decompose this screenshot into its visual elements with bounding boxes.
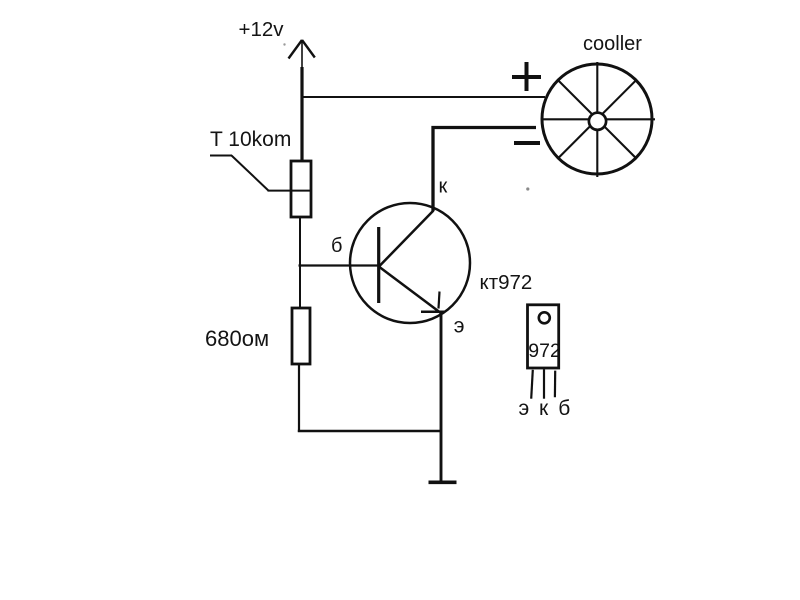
minus terminal — [514, 141, 540, 145]
transistor VT1 circle — [350, 203, 470, 323]
trimmer R1 wiper — [210, 156, 310, 191]
svg-text:кт972: кт972 — [480, 271, 533, 294]
svg-text:э: э — [454, 315, 465, 338]
wire: emitter down to ground — [440, 313, 443, 483]
wire: base wire — [299, 264, 380, 266]
package U1 hole — [539, 312, 550, 323]
speck artifact — [526, 187, 529, 190]
wire: trimmer to 680ом resistor — [299, 216, 301, 309]
svg-text:к: к — [539, 397, 549, 420]
transistor VT1 emitter arrow — [421, 292, 445, 312]
svg-text:cooller: cooller — [583, 33, 642, 55]
package U1 leg к — [543, 369, 545, 398]
svg-text:б: б — [558, 397, 570, 420]
svg-text:972: 972 — [528, 340, 561, 362]
svg-text:э: э — [519, 397, 530, 420]
package U1 leg э — [531, 370, 533, 399]
package U1 leg б — [554, 371, 556, 398]
ground — [429, 480, 457, 484]
speck artifact — [283, 43, 285, 45]
+12V supply arrow — [289, 40, 315, 68]
fan M1 outer circle — [542, 64, 652, 174]
svg-text:б: б — [331, 235, 342, 257]
wire: below R2 — [298, 363, 300, 432]
fan M1 hub — [589, 113, 606, 130]
svg-text:T 10kom: T 10kom — [210, 128, 291, 151]
transistor VT1 base bar — [377, 227, 380, 303]
transistor VT1 collector stroke — [379, 211, 434, 267]
wire: +12V feed to cooler plus — [301, 96, 545, 98]
wire: bottom return — [298, 430, 442, 433]
package U1 body — [528, 305, 559, 368]
wire: collector to cooler minus — [433, 128, 536, 212]
trimmer R1 body — [291, 161, 311, 217]
resistor R2 body — [292, 308, 310, 364]
svg-text:680ом: 680ом — [205, 326, 269, 351]
wire: +12V vertical stem to trimmer — [300, 67, 303, 162]
fan M1 blades — [542, 62, 656, 177]
svg-text:к: к — [439, 176, 448, 198]
plus terminal — [512, 62, 541, 91]
svg-text:+12v: +12v — [239, 18, 285, 41]
transistor VT1 emitter stroke — [380, 267, 442, 314]
